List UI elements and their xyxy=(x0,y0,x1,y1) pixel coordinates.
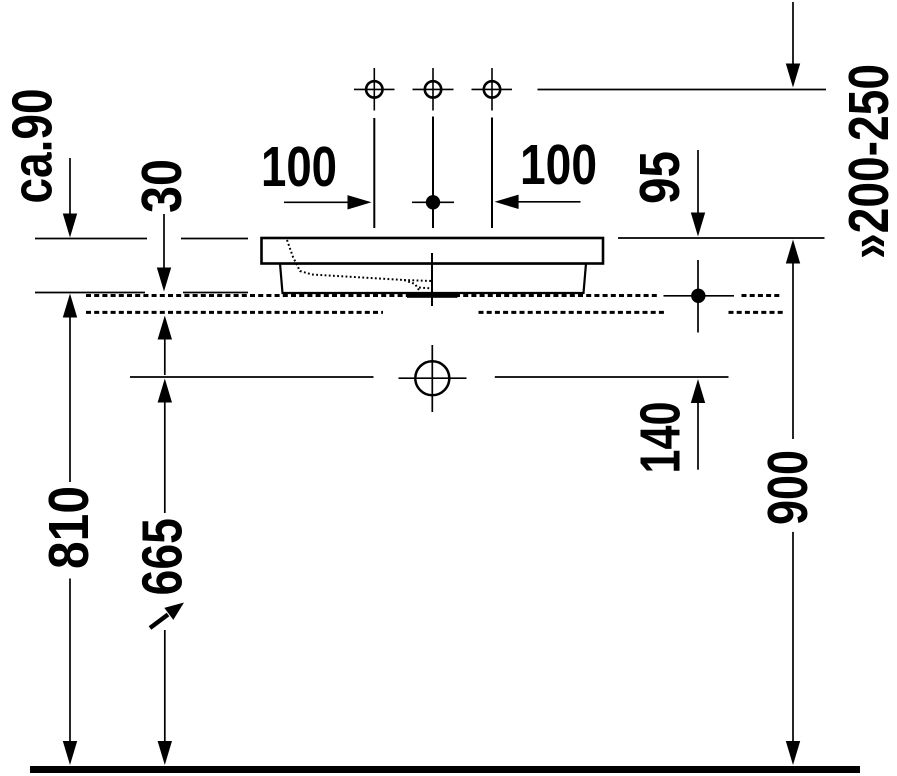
variable height marker arrow xyxy=(150,615,168,629)
basin bottom level line left b xyxy=(183,292,248,294)
dimension 95 arrow xyxy=(697,150,699,215)
svg-text:665: 665 xyxy=(131,518,195,596)
extension line below circle 2 xyxy=(432,117,434,229)
svg-text:30: 30 xyxy=(130,159,194,213)
dimension 30 arrow xyxy=(163,214,165,270)
drain thick line xyxy=(407,294,458,298)
short line through dot xyxy=(412,201,454,203)
svg-text:95: 95 xyxy=(628,151,692,204)
extension line below circle 3 xyxy=(491,118,493,229)
dimension 665 second upper arrow xyxy=(158,379,172,403)
faucet hole circle 1 xyxy=(354,68,395,111)
dimension 100 right: line and arrow xyxy=(516,201,581,203)
dimension 665 lower line and arrow xyxy=(164,630,166,743)
drain level line right xyxy=(495,376,729,378)
dashed line 2 xyxy=(86,311,784,314)
svg-text:100: 100 xyxy=(261,135,337,199)
faucet hole circle 3 xyxy=(472,68,513,111)
dashed line 1 xyxy=(86,294,781,297)
drain circle xyxy=(415,361,449,395)
rim level line left b xyxy=(181,238,248,240)
rim level line left a xyxy=(35,238,147,240)
svg-text:ca.90: ca.90 xyxy=(1,89,65,204)
interior dotted profile xyxy=(287,240,432,291)
dimension 140 arrow xyxy=(691,379,705,403)
dimension 900 lower line and arrow xyxy=(792,532,794,743)
drain level line left xyxy=(130,376,374,378)
svg-text:900: 900 xyxy=(756,450,820,525)
svg-text:140: 140 xyxy=(629,402,693,474)
filled dot on centre line xyxy=(426,195,440,209)
svg-text:»200-250: »200-250 xyxy=(837,64,897,259)
dimension 200-250 upper arrow xyxy=(792,2,794,68)
basin bottom level line left a xyxy=(35,292,145,294)
dimension 900 upper arrow xyxy=(786,240,800,264)
floor line xyxy=(30,766,860,773)
basin lower body xyxy=(280,264,586,294)
rim level line right xyxy=(618,237,825,239)
filled dot right with cross xyxy=(664,295,735,297)
dimension 810 lower line and arrow xyxy=(69,579,71,744)
basin rim xyxy=(262,238,604,264)
svg-text:810: 810 xyxy=(37,486,101,569)
dimension 665 first upper arrow xyxy=(158,316,172,340)
faucet hole circle 2 xyxy=(413,68,454,111)
drain crosshair xyxy=(399,377,467,379)
top right line xyxy=(538,89,827,91)
dimension 810 upper arrow xyxy=(63,294,77,318)
dimension ca.90 arrow xyxy=(69,158,71,214)
extension line below circle 1 xyxy=(373,118,375,228)
basin centre line xyxy=(431,253,433,306)
svg-text:100: 100 xyxy=(520,133,597,197)
dimension 100 left: line and arrow xyxy=(284,201,352,203)
